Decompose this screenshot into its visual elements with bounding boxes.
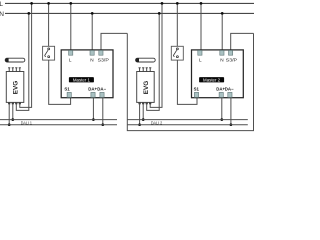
wire upper DALI1 bus (0, 119, 117, 121)
terminal S3/P of master2 (229, 50, 233, 55)
svg-text:Master 2: Master 2 (203, 77, 221, 82)
DALI master U1 (61, 50, 113, 98)
wire switch S1a to S1 terminal of Master 1 (49, 60, 71, 104)
terminal DA- of master2 (228, 92, 232, 97)
terminal S1 of master2 (194, 92, 198, 97)
wire S3/P extension U path (127, 33, 253, 130)
svg-text:DALI 1: DALI 1 (21, 120, 33, 125)
svg-text:S3/P: S3/P (98, 57, 109, 62)
junction dot L rail EVG1 (30, 2, 33, 5)
svg-text:S1: S1 (64, 87, 70, 92)
EVG1 bottom pin nubs (8, 103, 10, 105)
wire DA+ master2 to upper DALI bus (221, 97, 223, 119)
terminal DA+ of master2 (219, 92, 223, 97)
lamp LA1 (5, 58, 25, 62)
junction dot EVG2 pin2 upper bus (142, 118, 145, 121)
junction dot N rail master2 (221, 12, 224, 15)
DALI master U2 (192, 50, 244, 98)
junction dot L rail switch1 (47, 2, 50, 5)
EVG2 bottom pin nubs (139, 103, 141, 105)
junction dot N rail master1 (91, 12, 94, 15)
wire lower DALI2 bus (127, 124, 248, 126)
terminal N of master2 (220, 50, 224, 55)
svg-text:DA+: DA+ (88, 87, 97, 92)
wire N rail to Master2 N (221, 13, 223, 50)
junction dot EVG1 pin1 lower bus (8, 123, 11, 126)
ballast EVG1 (6, 72, 24, 103)
svg-text:Master 1: Master 1 (73, 77, 91, 82)
wire Master2 S3/P riser (231, 33, 254, 50)
wire EVG2 pin4 to L rail (150, 3, 162, 107)
badge Master 2 (199, 77, 224, 82)
wire N rail (5, 12, 254, 14)
wire EVG1 pin2 to upper DALI bus (12, 102, 14, 119)
wire L rail (5, 2, 254, 4)
wire EVG2 pin2 to upper DALI bus (142, 102, 144, 119)
wire upper DALI2 bus (127, 119, 248, 121)
wire Master1 S3/P riser (101, 33, 127, 50)
lamp LA2 (136, 58, 156, 62)
ballast EVG2 (137, 72, 155, 103)
svg-text:S1: S1 (194, 87, 200, 92)
svg-text:N: N (220, 57, 223, 62)
EVG2 top pins (139, 68, 152, 72)
EVG1 top pins (8, 68, 21, 72)
terminal L of master2 (198, 50, 202, 55)
svg-text:S3/P: S3/P (226, 57, 237, 62)
terminal L of master1 (69, 50, 73, 55)
wire lower DALI1 bus (0, 124, 117, 126)
junction dot DA+1 upper bus (92, 118, 95, 121)
svg-text:DA−: DA− (97, 87, 106, 92)
junction dot DA-2 lower bus (230, 123, 233, 126)
wire EVG1 pin1 to lower DALI bus (8, 102, 10, 124)
junction dot L rail master2 (200, 2, 203, 5)
terminal DA- of master1 (100, 92, 104, 97)
junction dot L rail EVG2 (161, 2, 164, 5)
svg-text:L: L (69, 57, 72, 62)
svg-text:EVG: EVG (143, 81, 150, 95)
wire L rail to Master1 L (70, 3, 72, 50)
junction dot N rail EVG2 (158, 12, 161, 15)
wire L rail to switch S2a (176, 3, 178, 46)
wire DA+ master1 to upper DALI bus (92, 97, 94, 119)
terminal N of master1 (90, 50, 94, 55)
terminal S1 of master1 (67, 92, 71, 97)
junction dot EVG2 pin1 lower bus (138, 123, 141, 126)
junction dot EVG1 pin2 upper bus (11, 118, 14, 121)
junction dot L rail master1 (69, 2, 72, 5)
wire EVG2 pin3 to N rail (147, 13, 160, 110)
terminal S3/P of master1 (99, 50, 103, 55)
svg-text:L: L (0, 1, 3, 8)
wire switch S2a to S1 terminal of Master 2 (177, 60, 197, 104)
pushbutton switch S1a (43, 46, 55, 60)
wire EVG1 pin4 to L rail (20, 3, 32, 107)
wire DA- master2 to lower DALI bus (230, 97, 232, 124)
wire EVG2 pin1 to lower DALI bus (139, 102, 141, 124)
svg-text:DALI 2: DALI 2 (151, 120, 163, 125)
wire EVG1 pin3 to N rail (16, 13, 29, 110)
wire DA- master1 to lower DALI bus (102, 97, 104, 124)
wire L rail to Master2 L (200, 3, 202, 50)
svg-text:N: N (90, 57, 93, 62)
badge Master 1 (69, 77, 94, 82)
svg-text:L: L (199, 57, 202, 62)
svg-text:EVG: EVG (13, 81, 20, 95)
wire N rail to Master1 N (91, 13, 93, 50)
svg-text:DA−: DA− (225, 87, 234, 92)
junction dot N rail EVG1 (27, 12, 30, 15)
wire L rail to switch S1a (48, 3, 50, 46)
svg-text:N: N (0, 11, 4, 18)
junction dot L rail switch2 (176, 2, 179, 5)
junction dot DA+2 upper bus (220, 118, 223, 121)
pushbutton switch S2a (171, 46, 183, 60)
terminal DA+ of master1 (91, 92, 95, 97)
junction dot DA-1 lower bus (101, 123, 104, 126)
